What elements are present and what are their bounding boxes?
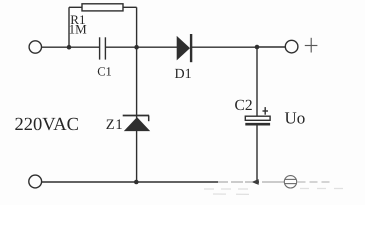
wire zener Z1 down to bottom rail (136, 131, 138, 183)
wire bottom rail middle (137, 181, 218, 183)
wire node C to output terminal (257, 46, 285, 48)
wire capacitor C2 to bottom rail (256, 126, 258, 183)
svg-text:C1: C1 (97, 64, 112, 78)
wire bottom rail left (42, 181, 137, 183)
wire node A to C1 left plate (69, 46, 100, 48)
capacitor C1 right plate (104, 37, 106, 59)
junction bottom under Z1 (134, 180, 139, 185)
wire to resistor left lead (69, 6, 82, 8)
plus sign output (305, 38, 318, 53)
junction node A (67, 45, 72, 50)
capacitor C1 left plate (99, 37, 101, 59)
junction node B (134, 45, 139, 50)
junction node C (255, 45, 260, 50)
svg-text:D1: D1 (175, 67, 192, 82)
wire node A up to resistor (68, 7, 70, 47)
wire down to node B (136, 7, 138, 47)
terminal input top (29, 41, 41, 53)
wire C1 right plate to node B (105, 46, 136, 48)
wire node B down to zener Z1 (136, 47, 138, 118)
svg-text:1M: 1M (69, 22, 88, 37)
wire D1 cathode to node C (192, 46, 257, 48)
plus sign of C2 (263, 107, 269, 115)
zener diode Z1 (123, 116, 150, 131)
terminal output bottom (faded) (284, 176, 296, 188)
svg-text:C2: C2 (235, 97, 253, 114)
terminal output top (285, 40, 298, 53)
resistor R1 body (82, 4, 123, 11)
svg-text:220VAC: 220VAC (15, 115, 79, 135)
terminal input bottom (29, 175, 42, 188)
svg-text:Z1: Z1 (106, 117, 124, 133)
junction bottom under C2 (252, 179, 259, 185)
wire node B to diode D1 anode (137, 46, 177, 48)
watermark smudges (204, 189, 344, 195)
faded bottom rail right (watermarked) (218, 181, 332, 183)
svg-text:Uo: Uo (285, 109, 306, 128)
capacitor C2 (245, 107, 270, 124)
diode D1 (177, 34, 191, 62)
wire resistor right lead (123, 6, 137, 8)
wire top-left to node A (42, 46, 69, 48)
wire node C down to capacitor C2 (256, 47, 258, 116)
